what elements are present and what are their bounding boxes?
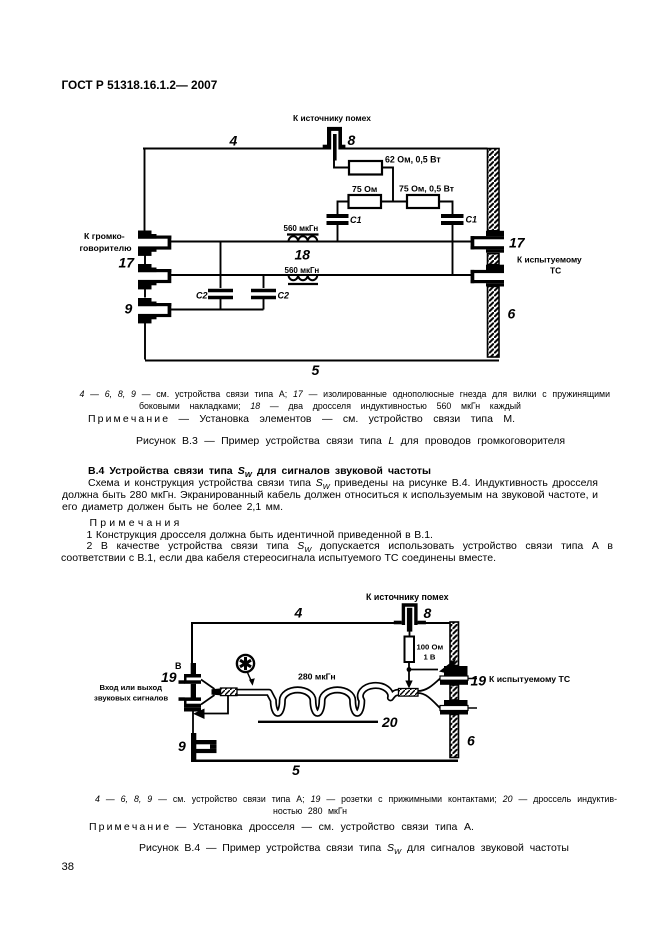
svg-text:К источнику помех: К источнику помех xyxy=(293,113,371,123)
svg-text:17: 17 xyxy=(509,235,526,251)
svg-text:6: 6 xyxy=(508,306,516,322)
svg-text:18: 18 xyxy=(295,247,311,263)
svg-text:20: 20 xyxy=(381,714,398,730)
svg-text:звуковых сигналов: звуковых сигналов xyxy=(94,694,168,703)
svg-text:ТС: ТС xyxy=(550,266,561,276)
svg-text:К громко-: К громко- xyxy=(84,231,125,241)
svg-text:Вход или выход: Вход или выход xyxy=(100,683,163,692)
svg-text:4: 4 xyxy=(294,605,303,621)
svg-text:С2: С2 xyxy=(278,291,290,301)
svg-text:17: 17 xyxy=(119,255,136,271)
svg-text:4: 4 xyxy=(229,132,238,148)
svg-text:75 Ом: 75 Ом xyxy=(352,184,377,194)
svg-text:9: 9 xyxy=(125,301,133,317)
svg-text:100 Ом: 100 Ом xyxy=(417,643,444,652)
svg-text:К источнику помех: К источнику помех xyxy=(366,592,449,602)
svg-text:19: 19 xyxy=(161,669,177,685)
svg-text:С2: С2 xyxy=(196,291,208,301)
svg-text:8: 8 xyxy=(348,132,356,148)
svg-text:С1: С1 xyxy=(466,215,478,225)
svg-text:9: 9 xyxy=(178,738,186,754)
svg-text:С1: С1 xyxy=(350,215,362,225)
svg-text:6: 6 xyxy=(467,733,475,749)
svg-text:560 мкГн: 560 мкГн xyxy=(284,224,319,233)
svg-text:19: 19 xyxy=(471,673,487,689)
svg-text:1 В: 1 В xyxy=(424,653,436,662)
svg-text:К испытуемому: К испытуемому xyxy=(517,255,582,265)
svg-text:говорителю: говорителю xyxy=(80,243,133,253)
svg-text:75 Ом, 0,5 Вт: 75 Ом, 0,5 Вт xyxy=(399,184,455,194)
svg-text:5: 5 xyxy=(292,762,300,778)
svg-text:280 мкГн: 280 мкГн xyxy=(298,672,336,682)
svg-text:560 мкГн: 560 мкГн xyxy=(285,266,320,275)
svg-text:8: 8 xyxy=(424,605,432,621)
svg-text:62 Ом, 0,5 Вт: 62 Ом, 0,5 Вт xyxy=(385,155,441,165)
svg-text:5: 5 xyxy=(312,362,320,378)
svg-text:К испытуемому ТС: К испытуемому ТС xyxy=(489,674,571,684)
